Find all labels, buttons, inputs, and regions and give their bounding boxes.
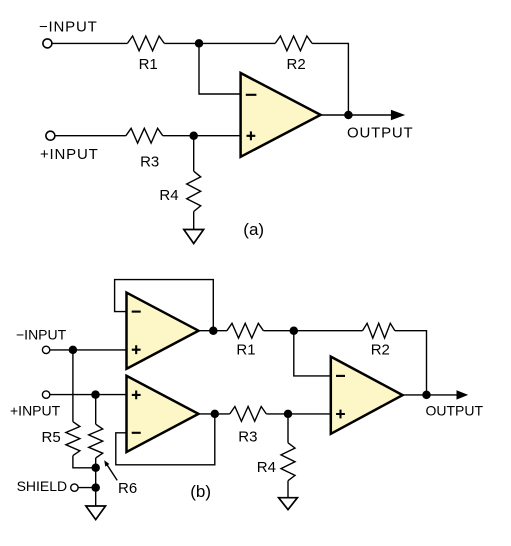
wire: node down to R6 (b) [95,395,97,425]
svg-text:R1: R1 [139,56,158,73]
pin: minus symbol U4 (b) [336,375,345,377]
wire: node to R4 (a) [193,136,195,172]
junction node R5/R6 (b) [91,464,100,473]
wire: U3 feedback loop (b) [116,414,215,465]
pin: minus symbol U2 (b) [132,311,141,313]
svg-text:OUTPUT: OUTPUT [426,402,484,418]
svg-text:R4: R4 [257,459,276,476]
svg-text:OUTPUT: OUTPUT [347,125,413,142]
pin: plus symbol U3 (b) [132,391,141,400]
resistor R4 (a) [187,171,201,211]
terminal: +INPUT (a) [46,131,55,140]
wire: R1 to R2 (b) [263,330,362,332]
arrow: output (a) [391,110,405,121]
wire: R4 to ground (a) [193,212,195,230]
svg-text:R2: R2 [371,342,390,359]
svg-text:(b): (b) [190,482,211,501]
wire: U3 output to R3 (b) [199,413,230,415]
svg-text:+INPUT: +INPUT [10,403,61,419]
resistor R2 (b) [363,323,395,338]
wire: node to R4 (b) [287,414,289,443]
wire: R1 to R2 node (a) [164,42,275,44]
resistor R3 (a) [126,128,163,143]
terminal: -INPUT (b) [42,346,49,353]
junction node +input/R6 (b) [91,390,100,399]
svg-text:R5: R5 [42,429,61,446]
ground (a) [184,230,204,244]
svg-text:R6: R6 [118,480,137,497]
junction node R1/R2 (b) [290,326,299,335]
wire: op-amp output (a) [321,114,392,116]
resistor R1 (b) [227,323,264,338]
wire: node down to R5 (b) [72,350,74,422]
svg-text:SHIELD: SHIELD [17,478,68,494]
resistor R6 (b) [89,424,103,458]
wire: U2 output to R1 (b) [199,330,227,332]
junction node U2 out (b) [209,326,218,335]
terminal: -INPUT (a) [43,39,52,48]
svg-text:R1: R1 [236,342,255,359]
svg-text:−INPUT: −INPUT [39,19,98,36]
wire: R6 bottom to shield node (b) [95,458,97,506]
wire: +INPUT to buffer U3 + (b) [50,394,127,396]
junction node -input/R5 (b) [69,346,78,355]
junction node SHIELD (b) [91,483,100,492]
wire: U2 feedback loop (b) [115,280,214,331]
op-amp U3 buffer lower (b) [127,376,199,452]
wire: R2 to output corner (a) [312,43,348,115]
wire: inverting feed U4 (b) [294,331,331,376]
arrow: output (b) [457,390,469,399]
wire: R2 to output corner (b) [395,331,427,395]
junction node R3/R4 (a) [189,131,198,140]
svg-text:(a): (a) [243,220,264,239]
wire: inverting input feed (a) [199,43,241,94]
junction node output (b) [422,391,431,400]
junction node U3 out (b) [211,410,220,419]
junction node R3/R4 (b) [284,410,293,419]
wire: R3 to op-amp + (b) [266,413,331,415]
wire: SHIELD to node (b) [78,487,95,489]
terminal: +INPUT (b) [42,391,49,398]
wire: U4 output (b) [403,394,457,396]
resistor R5 (b) [66,422,80,456]
ground R4 (b) [279,498,298,510]
wire: R3 to op-amp + (a) [163,135,241,137]
wire: R5 bottom to shield node (b) [73,456,96,468]
ground shield (b) [86,506,106,520]
junction node output (a) [344,111,353,120]
pin: minus symbol U3 (b) [132,432,141,434]
wire: -INPUT to R1 (a) [52,42,127,44]
pin: plus symbol U1 (a) [247,131,256,140]
svg-text:R3: R3 [140,154,159,171]
junction node R1/R2 (a) [195,39,204,48]
arrow: leader to R6 (b) [107,465,117,480]
resistor R2 (a) [275,36,312,51]
terminal: SHIELD (b) [71,484,78,491]
svg-text:+INPUT: +INPUT [40,146,99,163]
svg-text:R2: R2 [287,56,306,73]
svg-text:R4: R4 [159,187,178,204]
op-amp U1 (a) [241,73,321,157]
op-amp U4 output (b) [331,357,403,434]
svg-text:−INPUT: −INPUT [16,327,67,343]
resistor R4 (b) [281,443,295,481]
pin: minus symbol U1 (a) [246,94,257,96]
pin: plus symbol U4 (b) [336,410,345,419]
resistor R3 (b) [230,407,266,422]
wire: +INPUT to R3 (a) [55,135,126,137]
wire: -INPUT to buffer U2 + (b) [50,349,127,351]
pin: plus symbol U2 (b) [132,345,141,354]
wire: R4 to ground (b) [287,481,289,498]
op-amp U2 buffer upper (b) [127,293,199,369]
svg-text:R3: R3 [238,429,257,446]
resistor R1 (a) [127,36,164,51]
